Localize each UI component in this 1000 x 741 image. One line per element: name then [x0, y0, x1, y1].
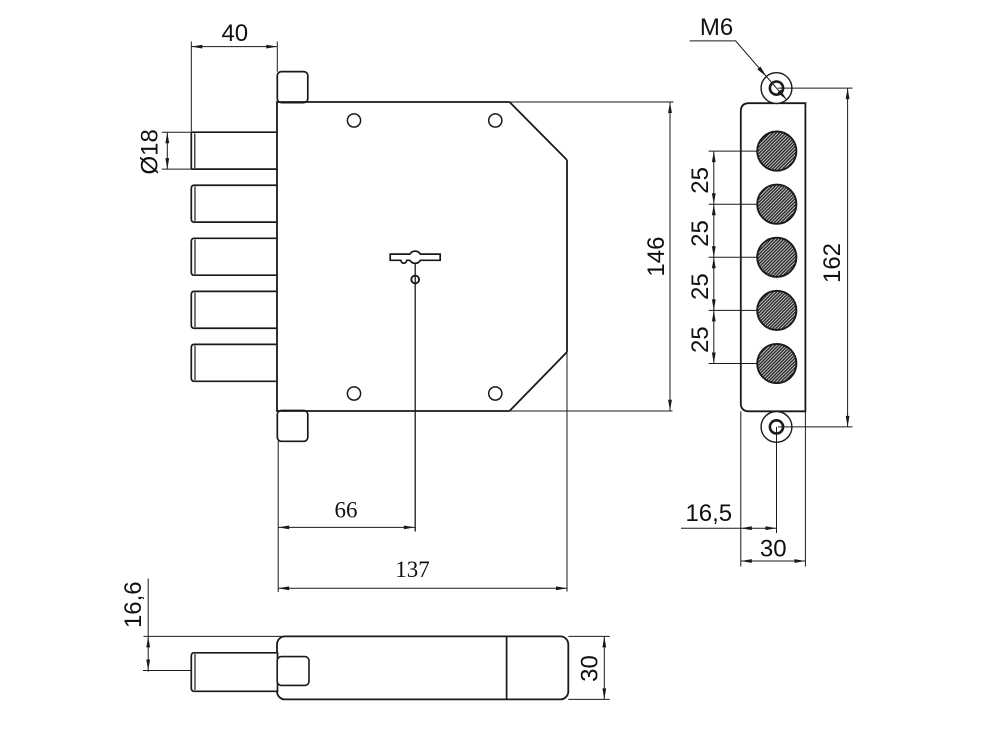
dim 16,6: dimension line: [147, 579, 149, 672]
dim 137: dimension line: [278, 587, 567, 589]
mounting hole top-right: [489, 114, 502, 127]
svg-text:146: 146: [643, 237, 670, 277]
dim 30 (plate width): dimension line: [741, 560, 806, 562]
body bottom-right chamfer diagonal: [510, 352, 568, 411]
bolt 3 (front view): [191, 238, 277, 275]
small pin circle below keyhole: [411, 276, 419, 284]
divider line in bottom view: [506, 636, 508, 699]
screw hole bottom M6: outer circle: [761, 412, 792, 443]
svg-text:30: 30: [760, 535, 787, 562]
extension line left edge down to 66/137 dims: [277, 441, 279, 592]
bolt 2 (front view): [191, 185, 277, 222]
svg-text:25: 25: [687, 326, 714, 353]
screw hole top M6: outer circle: [761, 73, 792, 104]
dim 16,5: dimension line: [681, 527, 777, 529]
dim Ø18: dimension line: [166, 132, 168, 169]
extension line right edge down to 137 dim: [566, 352, 568, 592]
extension line bottom edge to 146 dim: [510, 410, 673, 412]
small guide block (bottom view): [277, 657, 309, 686]
top latch: [277, 72, 308, 103]
svg-text:162: 162: [819, 243, 846, 283]
bolt 5 (front view): [191, 344, 277, 381]
svg-text:25: 25: [687, 220, 714, 247]
body top-right chamfer diagonal: [510, 102, 568, 160]
svg-text:40: 40: [221, 20, 248, 47]
M6 leader line: [690, 41, 787, 100]
svg-text:M6: M6: [700, 14, 733, 41]
screw hole bottom M6: inner thread circle: [770, 420, 783, 433]
dim 66: dimension line: [278, 526, 415, 528]
lock body (bottom view): [277, 636, 568, 699]
dim 30 (bottom view): dimension line: [603, 636, 605, 699]
bolt hole 1 (hatched): [757, 132, 796, 171]
extension line top edge to 146 dim: [510, 101, 674, 103]
dim 40: dimension line: [191, 46, 277, 48]
body right edge: [566, 160, 568, 352]
dim 25 chain: extension lines at bolt hole centers: [709, 150, 758, 152]
svg-text:137: 137: [395, 557, 430, 582]
svg-text:16,6: 16,6: [120, 581, 147, 628]
svg-text:Ø18: Ø18: [136, 129, 163, 174]
dim 162: dimension line: [847, 88, 849, 427]
dim Ø18: extension lines: [162, 131, 191, 133]
dim 16,5: extension line from screw center: [776, 427, 778, 533]
screw hole top M6: inner thread circle: [770, 82, 783, 95]
bolt hole 5 (hatched): [757, 344, 796, 383]
keyhole (double-bitted key profile): [390, 251, 440, 263]
lock body outline (front view): [277, 102, 510, 411]
dim 146: dimension line: [669, 102, 671, 411]
svg-text:30: 30: [577, 655, 604, 682]
bolt 1 (front view): [191, 132, 277, 169]
bolt (bottom view): [191, 653, 277, 692]
mounting hole bottom-right: [489, 387, 502, 400]
faceplate (side view) rounded plate: [741, 103, 806, 411]
bolt hole 2 (hatched): [757, 185, 796, 224]
dim 30 (plate width): extension lines: [740, 411, 742, 566]
svg-text:16,5: 16,5: [685, 500, 732, 527]
bottom latch: [277, 411, 308, 442]
dim 16,6: extension lines: [144, 635, 284, 637]
svg-text:25: 25: [687, 167, 714, 194]
dim 162: extension lines: [778, 87, 853, 89]
dim 25 chain: dimension line: [713, 151, 715, 363]
svg-text:25: 25: [687, 273, 714, 300]
bolt hole 3 (hatched): [757, 238, 796, 277]
bolt 4 (front view): [191, 291, 277, 328]
keyhole centerline: [414, 263, 416, 531]
dim 40: extension lines: [190, 42, 192, 132]
mounting hole bottom-left: [347, 387, 360, 400]
bolt hole 4 (hatched): [757, 291, 796, 330]
mounting hole top-left: [347, 114, 360, 127]
svg-text:66: 66: [335, 498, 358, 523]
dim 30 (bottom view): extension lines: [568, 635, 609, 637]
